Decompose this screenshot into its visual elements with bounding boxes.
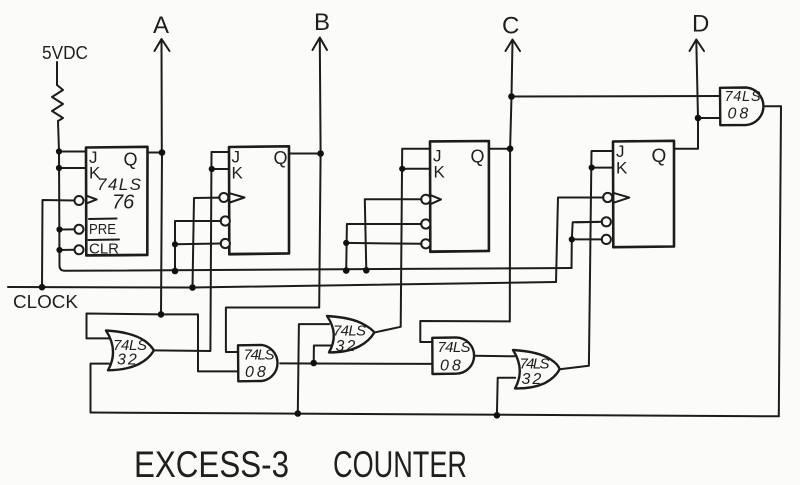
wire resistor to J — [58, 121, 59, 152]
wire OR1 bottom input from bottom bus — [91, 364, 110, 413]
svg-text:Q: Q — [124, 150, 138, 170]
wire FF3 PRE riser — [346, 224, 421, 271]
svg-text:08: 08 — [728, 106, 752, 123]
clock bubble U1 — [75, 196, 84, 205]
junction D AND3 — [695, 115, 702, 122]
wire A drop to gate area — [161, 153, 162, 315]
wire D to Q corner — [674, 118, 698, 149]
wire bottom bus — [91, 413, 779, 417]
wire AND3 output — [765, 105, 781, 107]
wire FF2 Q to B — [289, 153, 321, 155]
junction clock bus FF2 — [189, 284, 196, 291]
junction clock bus FF1 — [39, 284, 46, 291]
wire FF1 Q to A — [148, 152, 163, 154]
junction FF3 K — [399, 166, 405, 172]
svg-text:K: K — [232, 164, 244, 183]
wire FF4 CLR — [572, 238, 602, 240]
flip-flop U2 thick bottom edge — [231, 252, 289, 255]
svg-text:COUNTER: COUNTER — [333, 444, 467, 485]
junction bottom bus OR2 — [295, 410, 302, 417]
svg-text:76: 76 — [112, 192, 135, 214]
wire C step to AND2 top input — [420, 321, 510, 342]
svg-text:Q: Q — [471, 147, 485, 167]
PRE bubble U4 — [602, 217, 611, 226]
junction FF1 K — [56, 165, 62, 171]
wire FF2 K branch — [212, 168, 229, 170]
flip-flop U4 box — [613, 141, 674, 247]
wire FF3 Q to C — [489, 148, 510, 150]
wire A to AND1 bottom input — [161, 314, 238, 371]
svg-text:CLOCK: CLOCK — [13, 292, 78, 312]
junction FF1 PRE — [56, 226, 62, 232]
wire FF3 K branch — [402, 168, 430, 170]
PRE bubble U3 — [421, 219, 430, 228]
node A arrow — [155, 39, 170, 51]
wire B shaft — [319, 40, 322, 154]
svg-text:74LS: 74LS — [333, 323, 366, 340]
wire C mid — [510, 97, 511, 149]
junction FF4 PRECLR T — [569, 236, 575, 242]
svg-text:PRE: PRE — [89, 221, 116, 238]
wire C drop — [509, 149, 511, 322]
node C arrow — [506, 40, 521, 52]
OR gate G3 74LS32 — [327, 316, 374, 352]
junction pull-up bus FF3 PRE — [343, 267, 350, 274]
junction AND1 output — [310, 360, 317, 367]
wire FF4 PRE — [572, 222, 602, 240]
wire pull-up vertical and bus — [59, 152, 572, 271]
junction C Q — [507, 145, 514, 152]
svg-text:74LS: 74LS — [438, 339, 471, 356]
wire FF2 CLR — [175, 243, 221, 246]
wire OR2 bottom input riser from AND1 output — [314, 346, 331, 364]
clock bubble U4 — [603, 193, 612, 202]
wire B drop — [319, 154, 320, 308]
svg-text:74LS: 74LS — [244, 347, 275, 364]
flip-flop U2 box — [229, 146, 289, 254]
svg-text:08: 08 — [440, 358, 464, 375]
svg-text:K: K — [616, 159, 628, 178]
wire FF2 clock riser — [193, 198, 220, 288]
junction A gate node — [158, 311, 165, 318]
junction FF1 J — [56, 148, 62, 154]
AND gate U7 74LS08 top right — [720, 88, 763, 126]
wire OR1 output to FF2 JK — [154, 152, 229, 351]
svg-text:74LS: 74LS — [725, 89, 761, 105]
svg-text:EXCESS-3: EXCESS-3 — [134, 444, 289, 485]
svg-text:K: K — [434, 163, 446, 182]
svg-text:Q: Q — [652, 146, 667, 167]
clock bubble U3 — [421, 195, 430, 204]
junction pull-up bus FF3 clock — [363, 267, 370, 274]
pin CLR overline U1 — [89, 239, 120, 242]
svg-text:32: 32 — [522, 371, 544, 388]
wire right edge vertical — [779, 106, 781, 416]
junction bottom bus OR3 — [494, 412, 501, 419]
wire AND3 bottom input from D — [698, 117, 720, 119]
wire FF4 PRE thick overdraw — [576, 221, 598, 223]
junction B Q — [317, 150, 324, 157]
svg-text:32: 32 — [117, 352, 139, 369]
PRE bubble U2 — [221, 216, 230, 225]
PRE bubble U1 — [75, 225, 84, 234]
wire FF1 J input — [59, 151, 86, 153]
wire AND3 top input from C — [512, 95, 721, 98]
wire FF1 clock from CLOCK bus — [42, 200, 75, 287]
node D arrow — [690, 40, 705, 52]
svg-text:32: 32 — [336, 338, 358, 355]
flip-flop U3 thick bottom edge — [432, 250, 488, 253]
junction FF3 PRECLR T — [343, 240, 349, 246]
wire B step to AND1 top input — [226, 308, 319, 353]
AND gate G2 74LS08 — [238, 345, 278, 381]
OR gate G5 74LS32 — [513, 350, 560, 388]
flip-flop U1 74LS76 box — [86, 147, 148, 256]
wire D shaft — [696, 41, 698, 118]
wire FF3 CLR — [346, 242, 421, 245]
wire FF1 CLR input — [60, 249, 75, 251]
svg-text:Q: Q — [274, 148, 288, 168]
AND gate G4 74LS08 — [432, 338, 474, 375]
clock chevron U1 — [86, 196, 97, 204]
wire OR2 output to FF3 JK — [374, 149, 430, 333]
clock bubble U2 — [219, 193, 228, 202]
svg-text:D: D — [692, 11, 709, 38]
wire FF3 clock riser — [365, 199, 422, 270]
CLR bubble U4 — [602, 235, 611, 244]
wire FF4 PRE/CLR riser to pull-up bus — [571, 239, 573, 268]
wire OR1 top input from A — [87, 314, 162, 339]
junction C top — [508, 93, 515, 100]
junction FF1 CLR — [56, 247, 62, 253]
wire FF4 clock riser — [556, 198, 603, 283]
wire FF4 K branch — [592, 167, 613, 169]
clock chevron U3 — [430, 195, 441, 205]
svg-text:B: B — [314, 9, 330, 36]
svg-text:C: C — [502, 13, 519, 40]
wire OR2 top input riser from bottom bus — [298, 324, 329, 413]
wire FF1 K input — [59, 167, 86, 169]
svg-text:08: 08 — [245, 364, 269, 381]
resistor R1 — [52, 85, 63, 121]
flip-flop U3 box — [430, 141, 489, 252]
OR gate G1 74LS32 — [106, 331, 154, 371]
wire FF1 PRE input — [60, 228, 75, 230]
svg-text:5VDC: 5VDC — [42, 43, 88, 63]
junction FF2 PRECLR T — [172, 241, 178, 247]
CLR bubble U2 — [221, 239, 230, 248]
wire OR3 bottom input riser from bottom bus — [497, 378, 515, 416]
CLR bubble U3 — [421, 239, 430, 248]
svg-text:74LS: 74LS — [520, 356, 550, 373]
junction FF2 K — [209, 166, 215, 172]
svg-text:A: A — [153, 12, 169, 39]
wire AND2 output — [474, 355, 514, 358]
junction A Q — [159, 149, 166, 156]
svg-text:CLR: CLR — [89, 241, 119, 258]
clock chevron U4 — [615, 193, 630, 202]
wire FF2 PRE riser — [175, 221, 221, 271]
wire A shaft — [161, 41, 163, 153]
flip-flop U1 thick bottom edge — [88, 254, 147, 256]
wire CLOCK bus — [8, 282, 556, 288]
wire C shaft — [512, 41, 513, 97]
wire 5V lead — [56, 62, 58, 85]
junction FF4 K — [589, 165, 595, 171]
node B arrow — [313, 38, 328, 51]
clock chevron U2 — [230, 193, 245, 202]
wire OR3 output to FF4 JK — [560, 151, 613, 369]
CLR bubble U1 — [75, 245, 84, 254]
wire AND1 output — [280, 362, 434, 365]
pin PRE overline U1 — [89, 218, 117, 221]
junction pull-up bus FF2 — [172, 268, 179, 275]
